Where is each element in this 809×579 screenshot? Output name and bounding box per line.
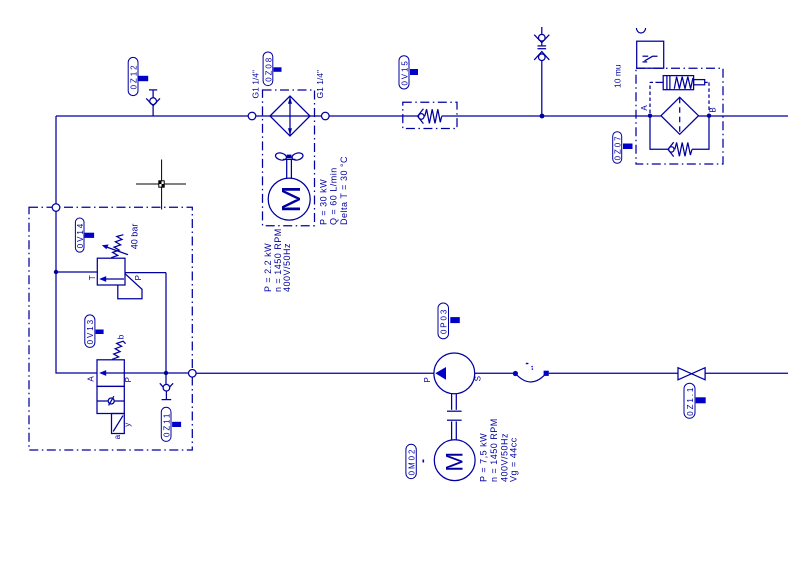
svg-text:400V/50Hz: 400V/50Hz: [282, 243, 292, 292]
svg-text:Vg = 44cc: Vg = 44cc: [509, 437, 519, 482]
svg-text:P: P: [124, 377, 133, 382]
svg-text:P = 2.2 kW: P = 2.2 kW: [263, 243, 273, 292]
svg-text:0Z1.1: 0Z1.1: [686, 386, 695, 416]
svg-text:0Z08: 0Z08: [264, 56, 273, 82]
svg-text:b: b: [117, 334, 126, 339]
svg-text:P = 7,5 kW: P = 7,5 kW: [479, 433, 489, 482]
svg-text:40 bar: 40 bar: [129, 224, 139, 250]
svg-text:G1 1/4": G1 1/4": [251, 70, 261, 99]
svg-text:M: M: [277, 185, 306, 213]
svg-text:0M02: 0M02: [407, 448, 416, 476]
svg-text:10 mu: 10 mu: [612, 64, 622, 88]
svg-text:0Z12: 0Z12: [130, 64, 139, 90]
svg-text:A: A: [87, 376, 96, 382]
svg-text:T: T: [88, 275, 97, 280]
svg-text:0Z07: 0Z07: [614, 135, 623, 161]
svg-text:B: B: [709, 107, 718, 112]
svg-text:P = 30 kW: P = 30 kW: [318, 179, 328, 225]
svg-text:Delta T = 30 °C: Delta T = 30 °C: [339, 156, 349, 225]
svg-text:0V13: 0V13: [86, 318, 95, 344]
svg-text:0Z11: 0Z11: [163, 412, 172, 437]
svg-text:a: a: [113, 434, 122, 439]
svg-text:A: A: [640, 105, 649, 111]
svg-text:G1 1/4": G1 1/4": [315, 70, 325, 99]
svg-text:0V15: 0V15: [400, 59, 409, 85]
svg-text:0P03: 0P03: [440, 308, 449, 334]
svg-text:P: P: [423, 377, 432, 382]
svg-text:n = 1450 RPM: n = 1450 RPM: [489, 418, 499, 482]
svg-text:M: M: [441, 452, 468, 472]
svg-text:y: y: [123, 423, 132, 427]
svg-text:0V14: 0V14: [76, 222, 85, 248]
svg-text:S: S: [474, 376, 483, 381]
svg-text:Q = 60 L/min: Q = 60 L/min: [329, 167, 339, 225]
svg-text:P: P: [134, 275, 143, 280]
